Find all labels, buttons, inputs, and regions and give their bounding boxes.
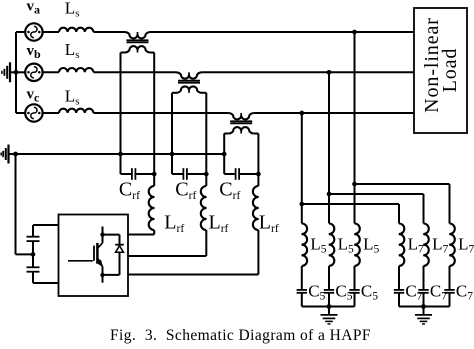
svg-text:Load: Load xyxy=(439,48,461,93)
svg-text:va: va xyxy=(27,0,41,16)
svg-text:Fig. 3. Schematic Diagram of: Fig. 3. Schematic Diagram of a HAPF xyxy=(110,327,371,344)
